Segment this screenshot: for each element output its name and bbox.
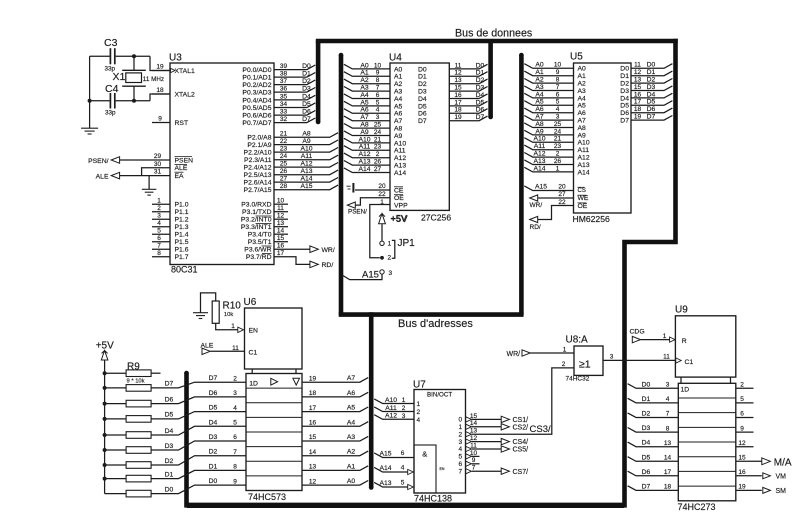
svg-text:3: 3 [458,439,462,446]
svg-text:A1: A1 [347,463,356,470]
svg-text:A2: A2 [535,77,544,84]
svg-text:D0: D0 [647,62,656,69]
svg-text:A0: A0 [578,66,587,73]
svg-text:7: 7 [233,449,237,456]
svg-text:P3.7/RD: P3.7/RD [246,254,272,261]
svg-text:1: 1 [402,397,406,404]
svg-text:D6: D6 [642,469,651,476]
svg-text:19: 19 [156,64,164,71]
svg-text:A14: A14 [379,465,391,472]
svg-text:12: 12 [309,478,317,485]
svg-text:XTAL2: XTAL2 [175,91,195,98]
svg-text:10: 10 [374,62,382,69]
svg-text:P2.5/A13: P2.5/A13 [244,172,272,179]
svg-text:OE: OE [394,195,404,202]
svg-text:D6: D6 [647,106,656,113]
svg-text:A11: A11 [301,153,313,160]
svg-text:3: 3 [157,212,161,219]
svg-text:A3: A3 [535,84,544,91]
svg-text:A10: A10 [300,146,312,153]
svg-text:D5: D5 [620,103,629,110]
svg-text:26: 26 [280,168,288,175]
svg-text:1: 1 [157,197,161,204]
svg-text:24: 24 [374,129,382,136]
svg-text:1D: 1D [681,387,690,394]
svg-text:A8: A8 [535,121,544,128]
svg-text:7: 7 [666,411,670,418]
svg-text:12: 12 [634,69,642,76]
svg-text:D1: D1 [642,396,651,403]
svg-text:2: 2 [740,382,744,389]
svg-text:6: 6 [401,450,405,457]
svg-text:16: 16 [309,420,317,427]
svg-text:2: 2 [458,431,462,438]
svg-text:0: 0 [458,417,462,424]
svg-text:D7: D7 [209,375,218,382]
svg-text:D1: D1 [620,73,629,80]
svg-text:3: 3 [389,270,393,277]
svg-text:1: 1 [663,333,667,340]
svg-text:A0: A0 [394,66,403,73]
svg-text:D1: D1 [647,69,656,76]
svg-text:X1: X1 [113,71,126,83]
svg-text:D7: D7 [642,483,651,490]
svg-text:&: & [422,449,427,458]
svg-text:D3: D3 [476,85,485,92]
svg-text:D6: D6 [418,111,427,118]
svg-text:A14: A14 [358,166,370,173]
svg-text:7: 7 [157,242,161,249]
svg-text:A5: A5 [578,103,587,110]
svg-text:D0: D0 [418,66,427,73]
svg-text:D7: D7 [620,118,629,125]
svg-text:13: 13 [277,220,285,227]
svg-text:20: 20 [378,183,386,190]
svg-text:1: 1 [563,347,567,354]
svg-text:A5: A5 [360,99,369,106]
svg-text:A13: A13 [533,158,545,165]
svg-text:D0: D0 [165,486,174,493]
svg-text:A1: A1 [535,69,544,76]
svg-text:PSEN: PSEN [175,157,194,164]
svg-text:A15: A15 [362,269,379,280]
svg-text:15: 15 [634,84,642,91]
svg-text:A12: A12 [358,151,370,158]
svg-text:12: 12 [738,440,746,447]
svg-text:A11: A11 [394,148,406,155]
svg-text:14: 14 [277,228,285,235]
svg-text:D6: D6 [302,109,311,116]
svg-text:10k: 10k [224,312,233,318]
svg-text:CS5/: CS5/ [513,447,529,454]
svg-text:A11: A11 [385,405,397,412]
svg-text:4: 4 [401,465,405,472]
svg-text:P1.2: P1.2 [175,217,189,224]
svg-text:A9: A9 [302,138,311,145]
svg-text:11: 11 [455,62,462,69]
svg-text:5: 5 [233,420,237,427]
svg-text:26: 26 [554,158,562,165]
svg-text:6: 6 [458,461,462,468]
svg-text:3: 3 [376,114,380,121]
svg-text:RD/: RD/ [530,224,541,231]
svg-text:A13: A13 [394,163,406,170]
svg-text:2: 2 [157,205,161,212]
svg-text:1: 1 [458,424,462,431]
svg-text:P0.6/AD6: P0.6/AD6 [242,113,271,120]
svg-text:19: 19 [738,484,746,491]
svg-text:19: 19 [634,114,642,121]
svg-text:D4: D4 [647,91,656,98]
svg-text:D4: D4 [476,92,485,99]
svg-text:6: 6 [556,91,560,98]
svg-text:A14: A14 [533,165,545,172]
svg-text:36: 36 [280,86,288,93]
svg-text:A9: A9 [360,129,369,136]
svg-text:P0.0/AD0: P0.0/AD0 [242,67,271,74]
svg-text:4: 4 [458,446,462,453]
svg-text:P0.1/AD1: P0.1/AD1 [242,75,271,82]
svg-text:4: 4 [417,417,421,424]
svg-text:5: 5 [401,480,405,487]
svg-text:7: 7 [458,468,462,475]
svg-text:2: 2 [388,255,392,262]
svg-text:A4: A4 [360,92,369,99]
svg-text:29: 29 [154,153,162,160]
svg-text:7: 7 [376,85,380,92]
svg-text:30: 30 [154,161,162,168]
svg-text:37: 37 [280,78,288,85]
svg-text:D5: D5 [418,103,427,110]
svg-text:16: 16 [277,243,285,250]
svg-text:3: 3 [610,354,614,361]
svg-text:D1: D1 [302,71,311,78]
svg-text:U8:A: U8:A [566,335,589,346]
svg-text:11: 11 [232,345,239,352]
svg-text:P2.2/A10: P2.2/A10 [244,150,272,157]
svg-text:13: 13 [470,428,478,435]
svg-text:22: 22 [558,199,566,206]
svg-text:D4: D4 [418,96,427,103]
svg-text:19: 19 [454,114,462,121]
svg-text:74HC573: 74HC573 [248,492,286,502]
svg-text:P0.2/AD2: P0.2/AD2 [242,82,271,89]
svg-text:CS2/: CS2/ [513,424,529,431]
svg-text:D0: D0 [209,478,218,485]
svg-text:D6: D6 [620,110,629,117]
svg-text:12: 12 [454,70,462,77]
svg-text:A5: A5 [535,99,544,106]
svg-text:BIN/OCT: BIN/OCT [427,391,452,398]
svg-text:3: 3 [556,114,560,121]
svg-text:A2: A2 [578,81,587,88]
svg-text:12: 12 [277,213,285,220]
svg-text:P3.1/TXD: P3.1/TXD [242,209,272,216]
svg-text:WE: WE [578,195,589,202]
svg-text:21: 21 [280,131,288,138]
svg-text:24: 24 [554,128,562,135]
svg-text:P2.0/A8: P2.0/A8 [247,135,271,142]
svg-text:18: 18 [309,390,317,397]
svg-text:D6: D6 [476,107,485,114]
svg-text:JP1: JP1 [398,238,416,249]
svg-text:A1: A1 [394,74,403,81]
svg-text:U3: U3 [169,53,182,64]
svg-text:A6: A6 [394,111,403,118]
svg-text:≥1: ≥1 [579,359,591,371]
svg-text:4: 4 [376,107,380,114]
svg-text:18: 18 [634,106,642,113]
svg-text:25: 25 [554,121,562,128]
svg-text:CDG: CDG [630,329,645,336]
svg-text:P1.5: P1.5 [175,239,189,246]
svg-text:D5: D5 [302,101,311,108]
svg-text:P2.6/A14: P2.6/A14 [244,180,272,187]
svg-text:D6: D6 [165,396,174,403]
svg-text:CS: CS [578,188,586,194]
svg-text:D1: D1 [476,70,485,77]
svg-text:38: 38 [280,71,288,78]
svg-text:18: 18 [664,484,672,491]
svg-text:4: 4 [556,106,560,113]
svg-text:A13: A13 [379,480,391,487]
svg-text:A12: A12 [578,155,590,162]
svg-text:D5: D5 [209,405,218,412]
svg-text:25: 25 [280,161,288,168]
svg-text:M/A: M/A [774,457,792,468]
svg-text:A8: A8 [302,131,311,138]
svg-text:D7: D7 [302,116,311,123]
svg-text:8: 8 [376,77,380,84]
svg-text:2: 2 [417,409,421,416]
svg-text:8: 8 [233,464,237,471]
svg-text:6: 6 [233,434,237,441]
svg-text:D5: D5 [165,412,174,419]
svg-text:D7: D7 [165,381,174,388]
svg-text:A4: A4 [394,96,403,103]
svg-text:20: 20 [558,184,566,191]
svg-text:P0.3/AD3: P0.3/AD3 [242,90,271,97]
svg-text:11: 11 [634,62,641,69]
svg-text:R10: R10 [223,300,242,311]
svg-text:9: 9 [472,457,476,464]
svg-text:A14: A14 [578,169,590,176]
svg-text:D4: D4 [620,95,629,102]
svg-text:A6: A6 [535,106,544,113]
svg-text:D2: D2 [647,77,656,84]
svg-text:27C256: 27C256 [421,213,451,223]
svg-text:24: 24 [280,153,288,160]
svg-text:A12: A12 [385,413,397,420]
svg-text:13: 13 [454,77,462,84]
svg-text:11 MHz: 11 MHz [143,76,164,83]
svg-text:D7: D7 [647,114,656,121]
svg-text:OE: OE [578,203,588,210]
svg-text:18: 18 [454,107,462,114]
svg-text:D2: D2 [620,81,629,88]
svg-text:A10: A10 [533,136,545,143]
svg-text:D7: D7 [418,118,427,125]
svg-text:15: 15 [454,85,462,92]
svg-text:U7: U7 [413,379,426,390]
svg-text:A14: A14 [300,176,312,183]
svg-text:P3.5/T1: P3.5/T1 [248,239,272,246]
svg-text:35: 35 [280,93,288,100]
svg-text:A15: A15 [379,451,391,458]
svg-text:17: 17 [277,250,285,257]
svg-text:18: 18 [156,87,164,94]
svg-text:D0: D0 [476,62,485,69]
svg-text:9 * 10k: 9 * 10k [127,378,145,384]
svg-text:WR/: WR/ [507,351,521,358]
svg-text:9: 9 [158,116,162,123]
svg-text:C1: C1 [249,350,258,357]
svg-text:5: 5 [740,396,744,403]
svg-text:80C31: 80C31 [171,265,198,275]
svg-text:EN: EN [440,467,445,471]
svg-text:27: 27 [280,176,288,183]
svg-text:34: 34 [280,101,288,108]
svg-text:WR/: WR/ [530,202,543,209]
svg-text:P3.0/RXD: P3.0/RXD [241,202,271,209]
svg-text:5: 5 [376,99,380,106]
svg-text:74HC138: 74HC138 [414,494,452,504]
svg-text:D3: D3 [302,86,311,93]
svg-text:A7: A7 [360,114,369,121]
svg-text:A7: A7 [535,114,544,121]
svg-text:A15: A15 [300,183,312,190]
svg-text:PSEN/: PSEN/ [348,209,367,216]
svg-text:C3: C3 [104,37,118,49]
svg-text:14: 14 [664,455,672,462]
svg-text:D3: D3 [642,425,651,432]
svg-text:P3.6/WR: P3.6/WR [244,247,271,254]
svg-text:10: 10 [277,198,285,205]
svg-text:D2: D2 [302,78,311,85]
svg-text:A4: A4 [535,91,544,98]
svg-text:A9: A9 [394,133,403,140]
svg-text:3: 3 [402,413,406,420]
svg-text:10: 10 [554,62,562,69]
svg-text:A7: A7 [347,375,356,382]
svg-text:27: 27 [558,191,566,198]
svg-text:2: 2 [376,151,380,158]
svg-text:VPP: VPP [394,203,408,210]
svg-text:U6: U6 [244,297,257,308]
svg-text:U9: U9 [675,304,688,315]
svg-text:A3: A3 [578,88,587,95]
svg-text:P2.3/A11: P2.3/A11 [244,157,272,164]
svg-text:5: 5 [458,454,462,461]
svg-text:EN: EN [249,327,259,334]
svg-text:P0.4/AD4: P0.4/AD4 [242,97,271,104]
svg-text:9: 9 [556,69,560,76]
svg-text:D2: D2 [418,81,427,88]
svg-text:23: 23 [374,144,382,151]
svg-text:D4: D4 [642,440,651,447]
svg-text:A2: A2 [360,77,369,84]
svg-text:31: 31 [154,169,162,176]
svg-text:D5: D5 [476,99,485,106]
svg-text:D3: D3 [209,434,218,441]
svg-text:A12: A12 [394,155,406,162]
svg-text:11: 11 [277,205,284,212]
svg-text:A1: A1 [578,73,587,80]
svg-text:6: 6 [376,92,380,99]
svg-text:A8: A8 [394,126,403,133]
svg-text:25: 25 [374,122,382,129]
svg-text:A7: A7 [394,118,403,125]
svg-text:A3: A3 [360,85,369,92]
svg-text:A13: A13 [300,168,312,175]
svg-text:D7: D7 [476,114,485,121]
svg-text:+5V: +5V [96,340,114,351]
svg-text:33p: 33p [105,110,116,117]
svg-text:A4: A4 [347,419,356,426]
svg-text:8: 8 [666,425,670,432]
svg-text:11: 11 [470,442,477,449]
svg-text:74HC273: 74HC273 [678,502,716,512]
svg-text:P2.7/A15: P2.7/A15 [244,187,272,194]
svg-text:26: 26 [374,159,382,166]
svg-text:RST: RST [175,120,189,127]
svg-text:ALE: ALE [96,173,109,180]
svg-text:A11: A11 [359,144,371,151]
svg-text:16: 16 [454,92,462,99]
svg-text:Bus de donnees: Bus de donnees [455,28,532,40]
svg-text:A5: A5 [347,405,356,412]
svg-text:8: 8 [157,250,161,257]
svg-text:1: 1 [417,401,421,408]
svg-text:A9: A9 [578,132,587,139]
svg-text:2: 2 [562,361,566,368]
svg-text:D3: D3 [165,443,174,450]
svg-text:P1.3: P1.3 [175,224,189,231]
svg-text:CS1/: CS1/ [513,417,529,424]
svg-text:4: 4 [157,220,161,227]
svg-text:D3: D3 [620,88,629,95]
svg-text:R: R [682,338,687,345]
svg-text:R9: R9 [127,361,140,372]
svg-text:A0: A0 [535,62,544,69]
svg-text:3: 3 [666,382,670,389]
svg-text:1: 1 [388,241,392,248]
svg-text:5: 5 [556,99,560,106]
svg-text:A10: A10 [394,140,406,147]
svg-text:21: 21 [374,136,382,143]
svg-text:U4: U4 [389,53,402,64]
svg-text:6: 6 [740,411,744,418]
svg-text:D0: D0 [620,66,629,73]
svg-text:P3.2/INT0: P3.2/INT0 [241,217,272,224]
svg-text:1: 1 [556,165,560,172]
svg-text:CS3/: CS3/ [530,424,551,435]
svg-text:21: 21 [554,136,562,143]
svg-text:U5: U5 [570,52,583,63]
svg-text:P1.7: P1.7 [175,254,189,261]
svg-text:A7: A7 [578,118,587,125]
svg-text:17: 17 [309,405,317,412]
svg-text:13: 13 [664,440,672,447]
svg-text:D5: D5 [647,99,656,106]
svg-text:A3: A3 [394,89,403,96]
svg-text:4: 4 [666,396,670,403]
svg-text:A13: A13 [358,159,370,166]
svg-text:C1: C1 [685,359,694,366]
svg-text:D1: D1 [209,463,218,470]
svg-text:D5: D5 [642,454,651,461]
svg-text:A1: A1 [360,70,369,77]
